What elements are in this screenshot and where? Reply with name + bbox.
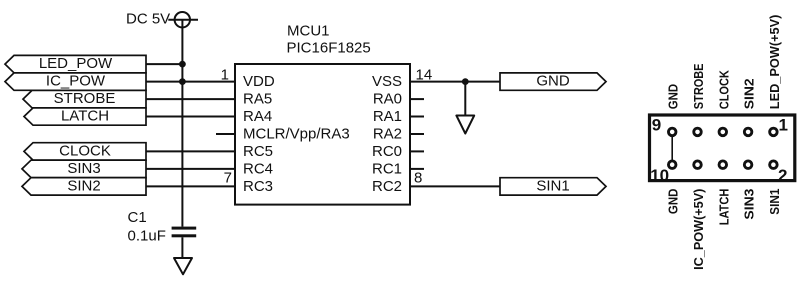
net flag IC_POW <box>5 73 146 91</box>
svg-text:VSS: VSS <box>372 73 402 90</box>
wire: STROBE to RA5 <box>146 98 235 100</box>
svg-text:SIN1: SIN1 <box>536 178 569 195</box>
svg-text:RC0: RC0 <box>372 143 402 160</box>
svg-text:2: 2 <box>778 166 787 185</box>
op IC MCU1 box <box>235 64 410 205</box>
svg-text:RC5: RC5 <box>243 143 273 160</box>
svg-text:1: 1 <box>221 66 229 83</box>
svg-text:RC1: RC1 <box>372 160 402 177</box>
svg-text:MCLR/Vpp/RA3: MCLR/Vpp/RA3 <box>243 125 350 142</box>
svg-text:9: 9 <box>652 116 661 135</box>
svg-text:CLOCK: CLOCK <box>59 143 111 160</box>
pin stub RA1 <box>410 116 424 118</box>
svg-text:STROBE: STROBE <box>54 90 116 107</box>
pin stub MCLR/Vpp/RA3 <box>216 133 235 135</box>
svg-text:1: 1 <box>779 116 788 135</box>
net flag SIN1 <box>500 178 606 196</box>
svg-text:SIN2: SIN2 <box>742 78 757 109</box>
svg-text:PIC16F1825: PIC16F1825 <box>287 39 371 56</box>
svg-text:RA2: RA2 <box>373 125 402 142</box>
wire: C1 to ground <box>181 237 183 258</box>
wire: LED_POW to rail <box>146 63 182 65</box>
svg-text:SIN3: SIN3 <box>742 189 757 220</box>
wire: VSS pin 14 to GND flag <box>410 81 500 83</box>
net flag LED_POW <box>5 55 146 73</box>
power flag DC5V <box>126 11 198 28</box>
svg-text:10: 10 <box>650 166 669 185</box>
pin stub RA2 <box>410 133 424 135</box>
wire: LATCH to RA4 <box>146 116 235 118</box>
svg-text:IC_POW(+5V): IC_POW(+5V) <box>691 189 706 270</box>
junction dot on VSS wire <box>462 78 469 85</box>
connector pin 2 pad <box>770 161 778 169</box>
pin stub RA0 <box>410 98 424 100</box>
svg-text:LED_POW(+5V): LED_POW(+5V) <box>767 15 782 110</box>
svg-text:SIN3: SIN3 <box>67 160 100 177</box>
connector pin 6 pad <box>719 161 727 169</box>
svg-text:8: 8 <box>414 170 422 187</box>
svg-text:RC4: RC4 <box>243 160 273 177</box>
svg-text:RC3: RC3 <box>243 178 273 195</box>
net flag LATCH <box>24 108 146 126</box>
svg-text:RA0: RA0 <box>373 91 402 108</box>
svg-text:C1: C1 <box>128 209 147 226</box>
net flag CLOCK <box>24 143 146 161</box>
wire: DC5V vertical rail down to C1 <box>181 20 183 227</box>
wire: CLOCK to RC5 <box>146 150 235 152</box>
ground symbol at VSS <box>456 82 474 134</box>
svg-text:SIN1: SIN1 <box>767 189 782 215</box>
connector pin 8 pad <box>694 161 702 169</box>
net flag SIN2 <box>22 178 146 196</box>
svg-text:GND: GND <box>536 73 570 90</box>
svg-text:GND: GND <box>666 189 681 215</box>
svg-text:IC_POW: IC_POW <box>46 73 106 90</box>
svg-text:RA4: RA4 <box>243 108 272 125</box>
svg-text:0.1uF: 0.1uF <box>128 228 166 245</box>
wire: RC2 pin 8 to SIN1 flag <box>410 185 500 187</box>
svg-text:LED_POW: LED_POW <box>39 55 113 72</box>
net flag SIN3 <box>22 160 146 178</box>
connector pin 3 pad <box>744 128 752 136</box>
svg-text:STROBE: STROBE <box>691 63 706 109</box>
connector pin 7 pad <box>694 128 702 136</box>
svg-text:CLOCK: CLOCK <box>716 70 731 110</box>
net flag STROBE <box>23 90 146 108</box>
capacitor C1 <box>128 209 197 245</box>
connector J1 box <box>650 115 795 181</box>
junction dot at LED_POW row <box>179 61 186 68</box>
pin stub RC0 <box>410 150 424 152</box>
svg-text:DC 5V: DC 5V <box>126 11 170 28</box>
svg-text:MCU1: MCU1 <box>287 23 330 40</box>
connector pin 1 pad <box>770 128 778 136</box>
junction dot at IC_POW/VDD row <box>179 78 186 85</box>
svg-text:VDD: VDD <box>243 73 275 90</box>
svg-text:RC2: RC2 <box>372 178 402 195</box>
connector pin 4 pad <box>744 161 752 169</box>
connector pin 9 pad <box>668 128 676 136</box>
net flag GND <box>500 73 606 91</box>
svg-text:LATCH: LATCH <box>716 189 731 226</box>
svg-text:GND: GND <box>666 84 681 109</box>
wire: IC_POW to VDD pin 1 <box>146 81 235 83</box>
svg-text:RA1: RA1 <box>373 108 402 125</box>
wire link pin9 to pin10 <box>671 137 673 161</box>
svg-text:SIN2: SIN2 <box>67 178 100 195</box>
wire: SIN2 to RC3 pin 7 <box>146 185 235 187</box>
svg-text:LATCH: LATCH <box>61 108 109 125</box>
ground symbol at C1 <box>174 258 192 274</box>
svg-text:7: 7 <box>224 170 232 187</box>
connector pin 5 pad <box>719 128 727 136</box>
wire: SIN3 to RC4 <box>146 168 235 170</box>
connector pin 10 pad <box>668 161 676 169</box>
pin stub RC1 <box>410 168 424 170</box>
svg-text:RA5: RA5 <box>243 91 272 108</box>
